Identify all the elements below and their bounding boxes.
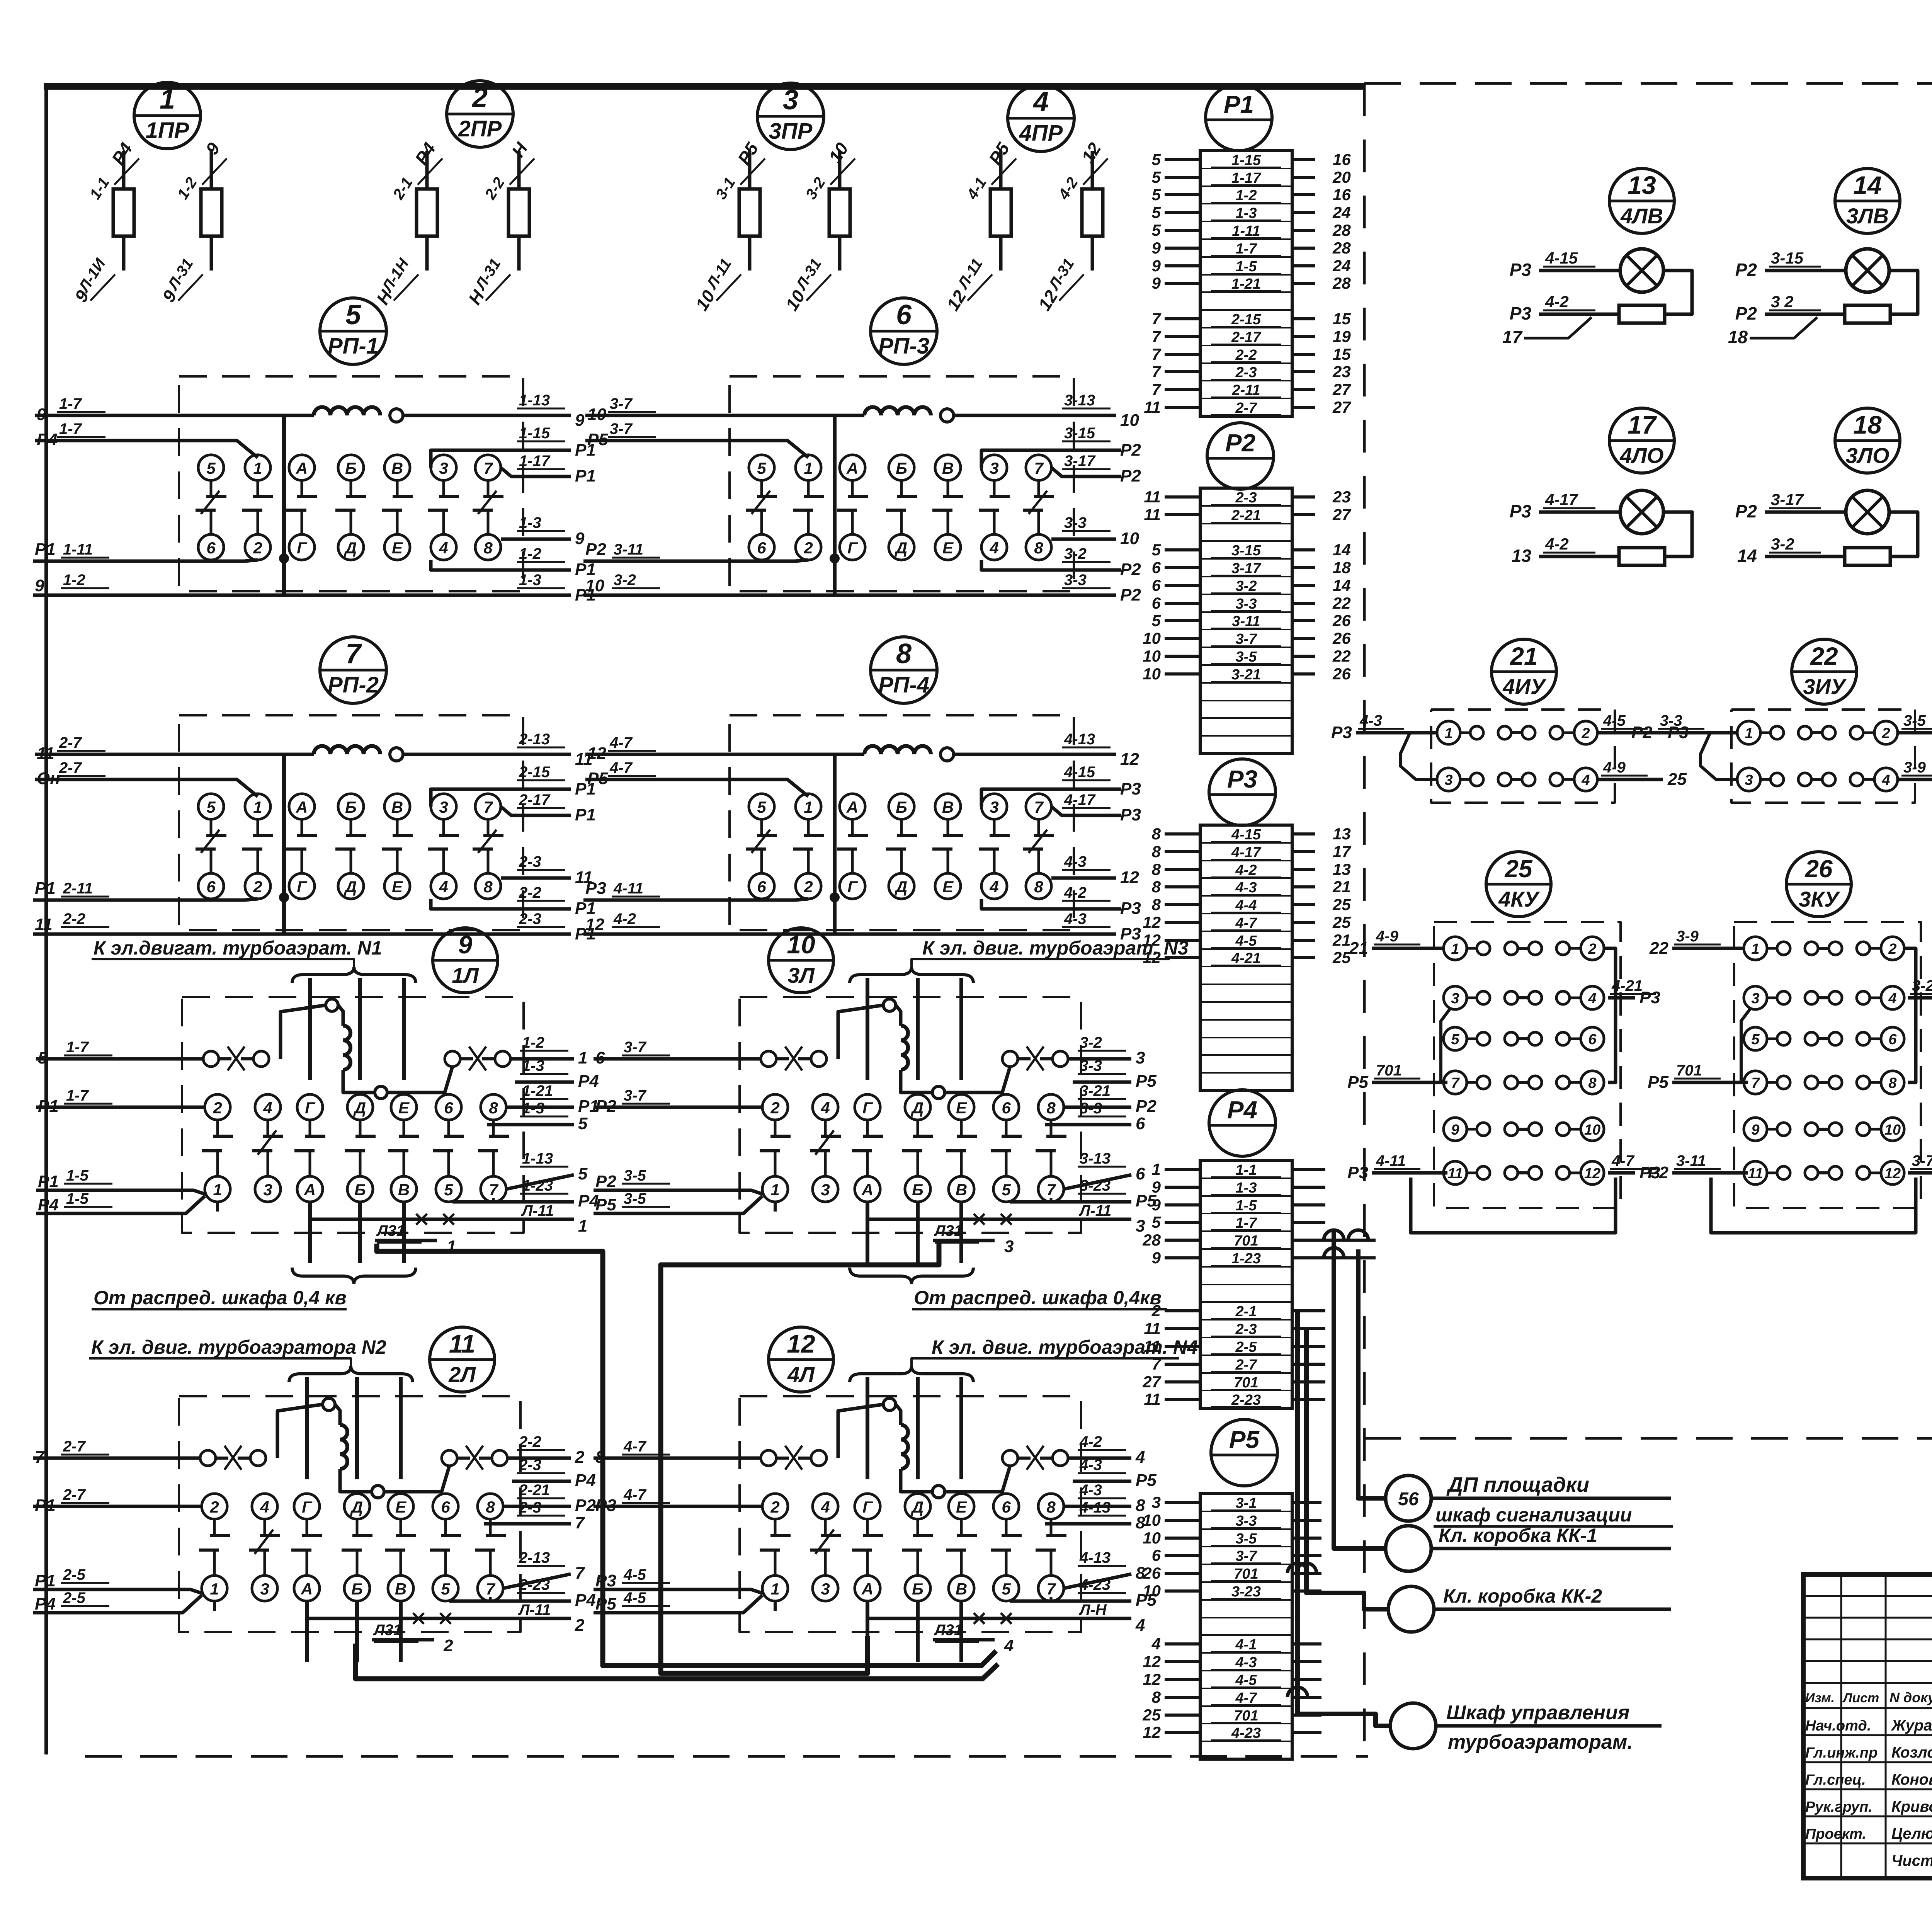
svg-text:3ПР: 3ПР	[769, 119, 813, 144]
contactor 1Л wire left 1	[36, 1057, 203, 1061]
relay РП-4 junction bus	[833, 754, 837, 934]
svg-text:А: А	[296, 798, 308, 816]
svg-text:23: 23	[1332, 488, 1351, 506]
relay РП-2 coil	[314, 746, 330, 755]
svg-text:11: 11	[1144, 398, 1161, 416]
svg-text:3: 3	[1444, 772, 1452, 788]
svg-text:17: 17	[1502, 327, 1523, 347]
contactor 2Л wire right 4	[484, 1522, 571, 1526]
svg-text:3-2: 3-2	[1771, 535, 1794, 553]
svg-text:4-21: 4-21	[1231, 950, 1261, 967]
contactor 2Л contact pin 8/7	[478, 1494, 503, 1519]
svg-text:3-23: 3-23	[1231, 1584, 1261, 1600]
svg-text:Г: Г	[305, 1099, 316, 1117]
svg-text:Р2: Р2	[1225, 429, 1255, 457]
contactor 2Л auxiliary contact right	[442, 1450, 457, 1466]
contactor 1Л contact pin Е/В	[391, 1094, 417, 1120]
svg-text:1-3: 1-3	[522, 1057, 544, 1074]
contactor 2Л wire right 7	[307, 1617, 571, 1620]
relay РП-1 wire left bottom 2	[33, 594, 284, 597]
relay РП-1 wire left 2	[35, 441, 258, 458]
svg-text:1: 1	[253, 459, 262, 477]
terminal strip Р4 body	[1200, 1161, 1292, 1408]
contactor 2Л contact pin 2/1	[202, 1494, 227, 1519]
svg-text:4-5: 4-5	[1235, 1672, 1257, 1688]
svg-text:25: 25	[1667, 770, 1687, 789]
svg-text:шкаф сигнализации: шкаф сигнализации	[1435, 1504, 1632, 1526]
svg-text:7: 7	[1751, 1075, 1760, 1091]
svg-text:Р4: Р4	[575, 1591, 596, 1610]
svg-text:7: 7	[1451, 1075, 1460, 1091]
svg-text:12: 12	[1120, 868, 1139, 887]
svg-text:4-9: 4-9	[1603, 759, 1626, 776]
relay РП-2 wire right 2-17	[501, 807, 571, 815]
svg-text:Г: Г	[862, 1099, 873, 1117]
svg-text:6: 6	[1588, 1031, 1597, 1048]
contactor 4Л auxiliary contact left	[761, 1450, 776, 1466]
svg-text:3-7: 3-7	[610, 395, 633, 412]
svg-text:11: 11	[1144, 1337, 1161, 1355]
svg-text:11: 11	[1447, 1166, 1463, 1182]
svg-text:4-15: 4-15	[1231, 827, 1261, 843]
connector 4КУ wire right row6	[1608, 1171, 1635, 1175]
svg-text:6: 6	[1002, 1099, 1011, 1117]
svg-text:Д: Д	[350, 1498, 363, 1516]
svg-text:Р3: Р3	[1120, 899, 1141, 918]
svg-text:3: 3	[439, 459, 448, 477]
svg-text:3: 3	[263, 1181, 272, 1199]
contactor 4Л contact pin Д/Б	[905, 1494, 930, 1519]
contactor 3Л wire left 4	[594, 1196, 762, 1213]
svg-text:4: 4	[1032, 87, 1049, 117]
fuse group designator 1/1ПР	[134, 82, 201, 149]
svg-text:701: 701	[1234, 1708, 1258, 1724]
relay РП-3 wire right 3-15	[981, 450, 1121, 468]
relay РП-1 contact pin 3/4	[431, 455, 456, 480]
relay РП-4 coil	[864, 746, 881, 755]
svg-text:4-5: 4-5	[1235, 933, 1257, 949]
svg-text:Б: Б	[345, 798, 357, 816]
heavy wire net Л31 from 1Л	[377, 1244, 996, 1666]
connector 4КУ row 5-6	[1444, 1027, 1467, 1050]
svg-text:20: 20	[1332, 168, 1351, 186]
svg-text:8: 8	[489, 1099, 498, 1117]
contactor 1Л contact pin Д/Б	[347, 1094, 373, 1120]
contactor 4Л wire right 5	[1064, 1574, 1131, 1588]
svg-text:Кл. коробка КК-1: Кл. коробка КК-1	[1439, 1525, 1597, 1546]
svg-text:1-2: 1-2	[63, 572, 85, 589]
svg-text:Г: Г	[302, 1498, 313, 1516]
fuse 4ПР pole 2	[1091, 151, 1094, 189]
svg-text:Е: Е	[956, 1099, 968, 1117]
relay РП-1 contact pin А/Г	[289, 455, 315, 480]
svg-text:4: 4	[260, 1498, 269, 1516]
contactor 1Л wire left 3	[36, 1190, 205, 1194]
contactor 1Л wire left 2	[36, 1106, 205, 1109]
svg-text:Л31: Л31	[373, 1622, 402, 1639]
contactor 4Л wire left 3	[594, 1589, 763, 1593]
connector 4ИУ wire left	[1356, 731, 1437, 735]
svg-text:Р3: Р3	[1510, 501, 1532, 521]
contactor 4Л contact pin 6/5	[993, 1494, 1019, 1519]
svg-text:27: 27	[1332, 398, 1351, 416]
contactor 1Л contact pin 8/7	[481, 1094, 506, 1120]
svg-text:8: 8	[1152, 825, 1161, 843]
svg-text:Р3: Р3	[595, 1496, 616, 1515]
relay РП-2 wire right 2-15	[431, 789, 571, 807]
svg-text:2-2: 2-2	[1235, 347, 1257, 363]
svg-text:2-17: 2-17	[519, 791, 551, 808]
svg-text:3ИУ: 3ИУ	[1803, 674, 1847, 699]
connector 4ИУ wire right 1	[1597, 731, 1663, 735]
svg-text:Р1: Р1	[35, 1571, 56, 1590]
svg-text:21: 21	[1332, 878, 1351, 896]
svg-text:1: 1	[578, 1217, 587, 1235]
contactor 3Л designator 10/3Л	[769, 928, 833, 993]
svg-text:9: 9	[35, 576, 44, 595]
svg-text:6: 6	[441, 1498, 450, 1516]
svg-text:10: 10	[585, 576, 604, 595]
svg-text:Гл.спец.: Гл.спец.	[1805, 1772, 1866, 1788]
title block signature grid	[1803, 1595, 1932, 1597]
svg-text:Е: Е	[942, 878, 954, 896]
svg-text:Р4: Р4	[37, 430, 58, 449]
svg-text:Р5: Р5	[1229, 1426, 1260, 1453]
svg-text:8: 8	[1034, 878, 1043, 896]
contactor 3Л contact pin Е/В	[949, 1094, 974, 1120]
contactor 1Л motor leads down	[308, 1202, 312, 1263]
lamp 4ЛВ link bulb-resistor	[1663, 271, 1692, 314]
svg-text:1: 1	[210, 1580, 219, 1598]
contactor 1Л bottom brace	[292, 1268, 416, 1284]
svg-text:3: 3	[821, 1181, 830, 1199]
svg-text:Р3: Р3	[1120, 779, 1141, 798]
contactor 4Л wire right 3	[1064, 1505, 1131, 1508]
svg-text:Р2: Р2	[1120, 466, 1141, 485]
svg-text:3-3: 3-3	[1080, 1100, 1102, 1117]
svg-text:4-2: 4-2	[1545, 535, 1569, 553]
contactor 3Л auxiliary contact left	[761, 1051, 776, 1067]
relay РП-3 wire left bottom 1	[583, 560, 808, 561]
relay РП-4 contact pin 3/4	[981, 794, 1007, 819]
wire node 56	[1431, 1497, 1671, 1500]
svg-text:В: В	[395, 1580, 406, 1598]
lamp 3ЛВ link bulb-resistor	[1889, 271, 1918, 314]
svg-text:12: 12	[587, 744, 606, 763]
svg-text:4-5: 4-5	[623, 1589, 646, 1606]
contactor 4Л coil	[901, 1425, 908, 1440]
svg-text:N докум.: N докум.	[1889, 1690, 1932, 1705]
svg-text:701: 701	[1234, 1233, 1258, 1249]
connector 3КУ left inner bus	[1741, 1009, 1750, 1082]
svg-text:14: 14	[1333, 576, 1351, 594]
contactor 2Л contact pin Е/В	[388, 1494, 413, 1519]
svg-text:Р5: Р5	[595, 1195, 616, 1214]
svg-text:Б: Б	[912, 1181, 923, 1199]
svg-text:1: 1	[160, 84, 175, 115]
svg-text:2: 2	[575, 1616, 585, 1635]
relay РП-4 wire left 1	[585, 754, 835, 760]
lamp 3ЛВ wire to resistor	[1765, 313, 1845, 316]
svg-text:1: 1	[1152, 1160, 1161, 1178]
svg-text:12: 12	[1143, 913, 1161, 931]
svg-text:1: 1	[804, 798, 813, 816]
svg-text:25: 25	[1504, 855, 1533, 883]
svg-text:Л-11: Л-11	[521, 1202, 554, 1219]
svg-text:4-3: 4-3	[1064, 853, 1087, 870]
svg-text:1-11: 1-11	[63, 541, 93, 558]
svg-text:23: 23	[1332, 362, 1351, 381]
svg-text:2-5: 2-5	[63, 1589, 86, 1606]
svg-text:2: 2	[253, 539, 262, 557]
svg-text:8: 8	[1152, 860, 1161, 878]
relay РП-2 contact pin Б/Д	[338, 794, 364, 819]
svg-text:21: 21	[1332, 931, 1351, 949]
relay РП-3 contact pin 7/8	[1026, 455, 1051, 480]
svg-text:Р2: Р2	[1648, 1163, 1668, 1182]
svg-text:19: 19	[1333, 327, 1351, 345]
svg-text:22: 22	[1649, 939, 1668, 958]
connector 4КУ enclosure dashed	[1434, 922, 1621, 1208]
contactor 2Л auxiliary contact left	[200, 1450, 216, 1466]
terminal strip Р1 body	[1200, 151, 1292, 416]
svg-text:Р3: Р3	[1347, 1163, 1368, 1182]
svg-text:3-2: 3-2	[1080, 1034, 1102, 1051]
sheet border bottom left dashed	[85, 1755, 1368, 1758]
svg-text:Д: Д	[895, 539, 907, 557]
svg-text:Л-11: Л-11	[518, 1601, 551, 1618]
svg-text:Г: Г	[862, 1498, 873, 1516]
svg-text:2-11: 2-11	[63, 880, 93, 897]
lamp 4ЛВ designator 13/4ЛВ	[1609, 168, 1674, 233]
svg-text:В: В	[956, 1181, 967, 1199]
svg-text:10: 10	[1584, 1122, 1600, 1138]
svg-text:26: 26	[1332, 665, 1351, 683]
svg-text:Кривой: Кривой	[1891, 1798, 1932, 1815]
contactor 2Л wire right 5	[503, 1574, 571, 1588]
contactor 1Л auxiliary contact left	[203, 1051, 219, 1067]
svg-text:25: 25	[1332, 948, 1351, 967]
svg-text:Р1: Р1	[35, 879, 56, 898]
svg-text:7: 7	[486, 1580, 495, 1598]
relay РП-2 wire right 2-3	[284, 933, 571, 936]
contactor 3Л wire left 1	[594, 1057, 761, 1061]
bus hop arc P5 4-7	[1287, 1687, 1308, 1697]
svg-text:1-21: 1-21	[1231, 276, 1261, 292]
svg-text:10: 10	[1143, 1582, 1161, 1600]
contactor 2Л motor feeder brace	[289, 1366, 413, 1382]
svg-text:А: А	[861, 1580, 873, 1598]
svg-text:Б: Б	[912, 1580, 923, 1598]
connector 3КУ row 1-2	[1744, 937, 1767, 960]
svg-text:4: 4	[1135, 1448, 1145, 1467]
svg-text:Р2: Р2	[1120, 560, 1141, 579]
svg-text:турбоаэраторам.: турбоаэраторам.	[1448, 1731, 1633, 1753]
connector 3КУ designator 26/3КУ	[1786, 852, 1851, 917]
svg-text:3-1: 3-1	[1236, 1495, 1257, 1511]
svg-text:1: 1	[1451, 941, 1459, 957]
svg-text:7: 7	[1152, 1355, 1162, 1373]
svg-text:22: 22	[1332, 647, 1351, 665]
terminal strip Р2 body	[1200, 488, 1292, 754]
node 56 circle	[1386, 1475, 1431, 1521]
svg-text:2-3: 2-3	[1235, 490, 1257, 506]
svg-text:3: 3	[1751, 990, 1759, 1007]
svg-text:3: 3	[783, 85, 798, 116]
lamp 3ЛО wire to resistor	[1765, 555, 1845, 558]
svg-text:1Л: 1Л	[452, 963, 479, 987]
contactor 3Л motor feeder wires	[866, 978, 869, 1080]
contactor 1Л enclosure dashed	[182, 997, 524, 1233]
svg-text:2: 2	[1588, 941, 1596, 957]
svg-text:26: 26	[1332, 629, 1351, 647]
svg-text:1-23: 1-23	[1231, 1251, 1261, 1267]
svg-text:3-11: 3-11	[614, 541, 643, 558]
relay РП-2 wire left bottom 1	[33, 899, 258, 900]
svg-text:Р4: Р4	[578, 1072, 599, 1091]
resistor 4ЛВ	[1619, 305, 1665, 323]
svg-text:1: 1	[804, 459, 813, 477]
svg-text:4-7: 4-7	[1235, 1690, 1258, 1706]
contactor 3Л bottom brace	[850, 1268, 973, 1284]
svg-text:Изм.: Изм.	[1805, 1691, 1835, 1705]
svg-text:1-13: 1-13	[519, 392, 550, 409]
svg-text:9: 9	[1152, 1196, 1161, 1214]
svg-text:Р3: Р3	[595, 1571, 616, 1590]
lamp 4ЛО link bulb-resistor	[1663, 512, 1692, 556]
svg-text:Р2: Р2	[1631, 723, 1652, 742]
connector 4ИУ row 3-4	[1437, 768, 1460, 791]
svg-text:1-17: 1-17	[1231, 170, 1262, 186]
svg-text:4-21: 4-21	[1611, 977, 1643, 994]
svg-text:3ЛВ: 3ЛВ	[1846, 204, 1889, 228]
svg-text:Рук.груп.: Рук.груп.	[1805, 1799, 1872, 1815]
svg-text:Р1: Р1	[38, 1097, 59, 1116]
svg-text:4-15: 4-15	[1545, 249, 1578, 267]
relay РП-4 wire left bottom 1	[583, 899, 808, 900]
lamp 4ЛВ wire to resistor	[1539, 313, 1619, 316]
connector 3ИУ wire left	[1656, 731, 1737, 735]
svg-text:11: 11	[1144, 488, 1161, 506]
svg-text:Р2: Р2	[1120, 441, 1141, 459]
relay РП-3 contact pin 5/6	[749, 455, 774, 480]
connector 3ИУ row 1-2	[1737, 721, 1760, 744]
svg-text:4: 4	[1881, 772, 1890, 788]
svg-text:Козловская: Козловская	[1891, 1744, 1932, 1761]
svg-text:5: 5	[1451, 1031, 1459, 1048]
contactor 1Л wire right 1	[510, 1057, 574, 1061]
svg-text:Р1: Р1	[575, 805, 596, 824]
svg-text:4-13: 4-13	[1064, 731, 1095, 748]
svg-text:3-5: 3-5	[624, 1167, 646, 1184]
svg-text:2-5: 2-5	[63, 1566, 86, 1583]
svg-text:7: 7	[1152, 327, 1162, 345]
resistor 3ЛО	[1845, 548, 1890, 565]
svg-text:2-3: 2-3	[519, 853, 541, 870]
connector 3КУ row 11-12	[1744, 1161, 1767, 1184]
wire node Шкаф управления	[1436, 1724, 1662, 1728]
lamp 4ЛО wire to resistor	[1539, 555, 1619, 558]
svg-text:6: 6	[1002, 1498, 1011, 1516]
svg-text:27: 27	[1142, 1373, 1161, 1391]
contactor 3Л L31 stub label	[933, 1239, 995, 1242]
svg-text:11: 11	[1144, 1319, 1161, 1338]
connector 4ИУ row 1-2	[1437, 721, 1460, 744]
svg-text:4-1: 4-1	[1235, 1637, 1257, 1653]
svg-text:3-3: 3-3	[1660, 712, 1682, 729]
svg-text:3-9: 3-9	[1676, 928, 1699, 945]
svg-text:4-5: 4-5	[1603, 712, 1626, 729]
svg-text:8: 8	[486, 1498, 495, 1516]
connector 4КУ right side bus	[1604, 948, 1616, 1082]
svg-text:2: 2	[253, 878, 262, 896]
svg-text:701: 701	[1234, 1375, 1258, 1391]
svg-text:5: 5	[206, 459, 216, 477]
svg-text:Р3: Р3	[1331, 723, 1352, 742]
svg-text:4: 4	[439, 539, 448, 557]
svg-text:4: 4	[1004, 1636, 1014, 1655]
connector 4КУ wire left row6	[1372, 1171, 1447, 1175]
svg-text:3Л: 3Л	[787, 963, 815, 987]
svg-text:Л31: Л31	[934, 1622, 963, 1639]
svg-text:1-15: 1-15	[519, 425, 550, 442]
svg-text:4-2: 4-2	[613, 910, 636, 927]
svg-text:Р2: Р2	[575, 1496, 596, 1515]
svg-text:4: 4	[1581, 772, 1590, 788]
relay РП-1 coil	[314, 407, 330, 416]
svg-text:18: 18	[1728, 327, 1748, 347]
svg-text:Шкаф управления: Шкаф управления	[1446, 1702, 1629, 1724]
svg-text:1-7: 1-7	[1236, 241, 1258, 257]
contactor 2Л coil	[340, 1425, 347, 1440]
contactor 4Л contact pin 4/3	[813, 1494, 838, 1519]
relay РП-1 wire right 1-2	[431, 560, 571, 570]
relay РП-3 wire right 3-3	[835, 594, 1116, 597]
svg-text:8: 8	[1046, 1099, 1056, 1117]
svg-text:Р4: Р4	[1227, 1096, 1257, 1124]
svg-text:2-21: 2-21	[519, 1482, 550, 1499]
svg-text:3-7: 3-7	[1236, 1548, 1258, 1564]
relay РП-2 contact pin 7/8	[475, 794, 501, 819]
contactor 2Л contact pin 4/3	[252, 1494, 277, 1519]
relay РП-4 wire right 4-15	[981, 789, 1121, 807]
contactor 1Л wire right 6	[492, 1198, 495, 1202]
svg-text:2-2: 2-2	[519, 1433, 541, 1450]
relay РП-1 wire right 1-15	[431, 450, 571, 468]
svg-text:От распред. шкафа 0,4 кв: От распред. шкафа 0,4 кв	[94, 1287, 347, 1309]
svg-text:6: 6	[595, 1048, 605, 1067]
contactor 1Л contact pin 4/3	[255, 1094, 281, 1120]
contactor 4Л wire right 6	[1050, 1597, 1053, 1601]
sheet border top thick	[44, 83, 1364, 90]
bus wires from Р4 to junction boxes	[1292, 1168, 1325, 1171]
contactor 4Л wire right 1	[1068, 1457, 1131, 1460]
svg-text:8: 8	[896, 638, 912, 669]
connector 3КУ right side bus	[1904, 948, 1916, 1082]
svg-text:4КУ: 4КУ	[1498, 887, 1540, 911]
svg-text:13: 13	[1628, 171, 1656, 199]
svg-text:3-2: 3-2	[1236, 578, 1257, 594]
svg-text:1-3: 1-3	[522, 1100, 544, 1117]
contactor 4Л wire left 4	[594, 1595, 762, 1613]
svg-text:7: 7	[483, 798, 493, 816]
svg-text:1-21: 1-21	[522, 1082, 553, 1099]
svg-text:25: 25	[1142, 1706, 1161, 1724]
svg-text:2: 2	[213, 1099, 222, 1117]
resistor 3ЛВ	[1845, 305, 1890, 323]
relay РП-3 wire right 3-17	[1051, 468, 1121, 476]
svg-text:12: 12	[1120, 750, 1139, 769]
